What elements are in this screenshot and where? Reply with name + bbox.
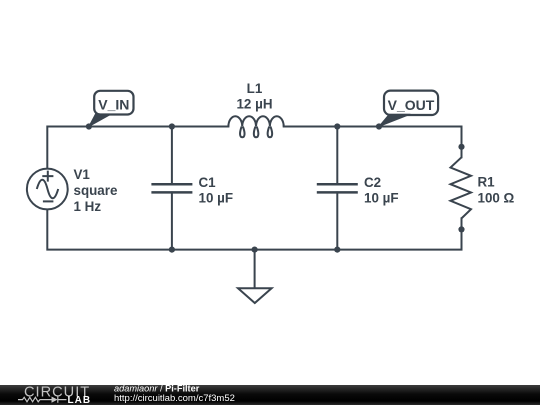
svg-text:V_OUT: V_OUT <box>388 97 435 113</box>
inductor L1 <box>228 116 283 137</box>
wire: C1 top stub <box>171 127 173 185</box>
wire: C2 top stub <box>336 127 338 185</box>
svg-text:1 Hz: 1 Hz <box>74 199 102 214</box>
node V_IN junction dot <box>86 123 92 129</box>
voltage source V1 <box>27 169 68 210</box>
wire: L1 right to top-right corner down to R1 <box>284 127 462 158</box>
wire: V1 top to top-left corner to L1 left <box>47 127 228 169</box>
label V1 square 1 Hz <box>74 167 118 214</box>
svg-text:C2: C2 <box>364 175 381 190</box>
node ground junction dot <box>252 247 258 253</box>
wire: R1 bottom to bottom-right corner, bottom rail, up to V1 bottom <box>47 209 461 249</box>
svg-text:square: square <box>74 183 118 198</box>
ground <box>238 288 272 303</box>
footer text <box>114 384 235 405</box>
wire: ground stub <box>254 250 256 289</box>
svg-text:12 µH: 12 µH <box>236 97 272 112</box>
svg-text:adamiaonr / Pi-Filter: adamiaonr / Pi-Filter <box>114 384 200 394</box>
wire: C1 bottom stub <box>171 192 173 249</box>
net flag V_IN <box>89 91 134 127</box>
svg-text:C1: C1 <box>199 175 217 190</box>
svg-text:100 Ω: 100 Ω <box>478 190 515 205</box>
node C2 bottom junction dot <box>334 247 340 253</box>
svg-text:V1: V1 <box>74 167 91 182</box>
wire: C2 bottom stub <box>336 192 338 249</box>
node R1 bottom terminal dot <box>458 226 464 232</box>
CircuitLab logo <box>18 384 91 405</box>
node C1 top junction dot <box>169 123 175 129</box>
svg-text:10 µF: 10 µF <box>364 190 399 205</box>
footer bar <box>0 385 540 405</box>
label C2 10 uF <box>364 175 399 205</box>
svg-text:http://circuitlab.com/c7f3m52: http://circuitlab.com/c7f3m52 <box>114 393 235 404</box>
svg-text:LAB: LAB <box>68 395 92 405</box>
capacitor C2 <box>317 184 358 192</box>
label L1 12 uH <box>236 81 272 112</box>
svg-text:10 µF: 10 µF <box>199 190 234 205</box>
label C1 10 uF <box>199 175 234 205</box>
resistor R1 <box>451 157 472 218</box>
node R1 top terminal dot <box>458 144 464 150</box>
svg-text:L1: L1 <box>247 81 263 96</box>
svg-text:R1: R1 <box>478 175 496 190</box>
node V_OUT junction dot <box>376 123 382 129</box>
net flag V_OUT <box>379 91 438 127</box>
node C2 top junction dot <box>334 123 340 129</box>
node C1 bottom junction dot <box>169 247 175 253</box>
svg-text:V_IN: V_IN <box>98 96 129 112</box>
label R1 100 Ohm <box>478 175 515 206</box>
capacitor C1 <box>151 184 192 192</box>
